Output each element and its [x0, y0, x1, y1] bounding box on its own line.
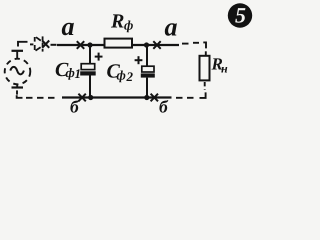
wire: dashed top right to load [182, 42, 206, 55]
positive plate (hollow) [142, 66, 154, 72]
capacitor C_f2 (electrolytic) [135, 46, 155, 97]
label R_n [211, 58, 222, 69]
plus sign C2 [135, 56, 143, 64]
top lead [146, 46, 148, 67]
plus sign C1 [95, 53, 103, 61]
bottom lead [89, 76, 91, 98]
terminal cross X at node a left [77, 41, 84, 49]
wire: dashed riser corner from source to diode [18, 42, 33, 47]
source top terminal [12, 51, 24, 59]
source bottom terminal [12, 84, 24, 88]
wire: dashed bottom right corner [176, 92, 206, 98]
resistor R_f box [105, 39, 133, 48]
label C_f2 [107, 64, 120, 77]
terminal cross X (after diode) [42, 41, 49, 48]
terminal cross X at node b left [78, 94, 85, 102]
resistor R_n box (load) [200, 56, 210, 81]
label C_f1 [56, 63, 69, 76]
junction dot (bottom of C2) [144, 95, 149, 100]
terminal cross X at node b right [151, 94, 158, 102]
junction dot (bottom of C1) [88, 95, 93, 100]
node b (left label) [70, 100, 79, 113]
wire: dashed load bottom lead [204, 82, 206, 90]
top lead [89, 46, 91, 64]
capacitor C_f1 (electrolytic) [80, 46, 102, 97]
junction dot (top of C1) [87, 42, 92, 47]
AC source G1 (dashed circle with sine) [5, 59, 31, 85]
node a (left label) [62, 23, 74, 36]
wire: bottom rail solid [62, 96, 172, 98]
wire: top rail left segment [57, 44, 105, 46]
wire: dashed bottom left from source [17, 90, 55, 97]
terminal cross X at node a right [153, 41, 160, 49]
junction dot (top of C2) [144, 42, 149, 47]
label R_f [111, 14, 124, 27]
figure number badge 5 [228, 3, 252, 27]
negative plate (solid) [141, 73, 155, 77]
wire: top rail right segment [132, 44, 179, 46]
negative plate (solid) [80, 71, 96, 75]
node b (right label) [159, 100, 168, 113]
wire: dash into solid top rail left [51, 44, 57, 46]
background paper [0, 0, 270, 117]
bottom lead [146, 78, 148, 97]
node a (right label) [165, 23, 177, 36]
diode VD (dashed rectifier symbol) [35, 36, 43, 51]
positive plate (hollow) [81, 64, 95, 70]
